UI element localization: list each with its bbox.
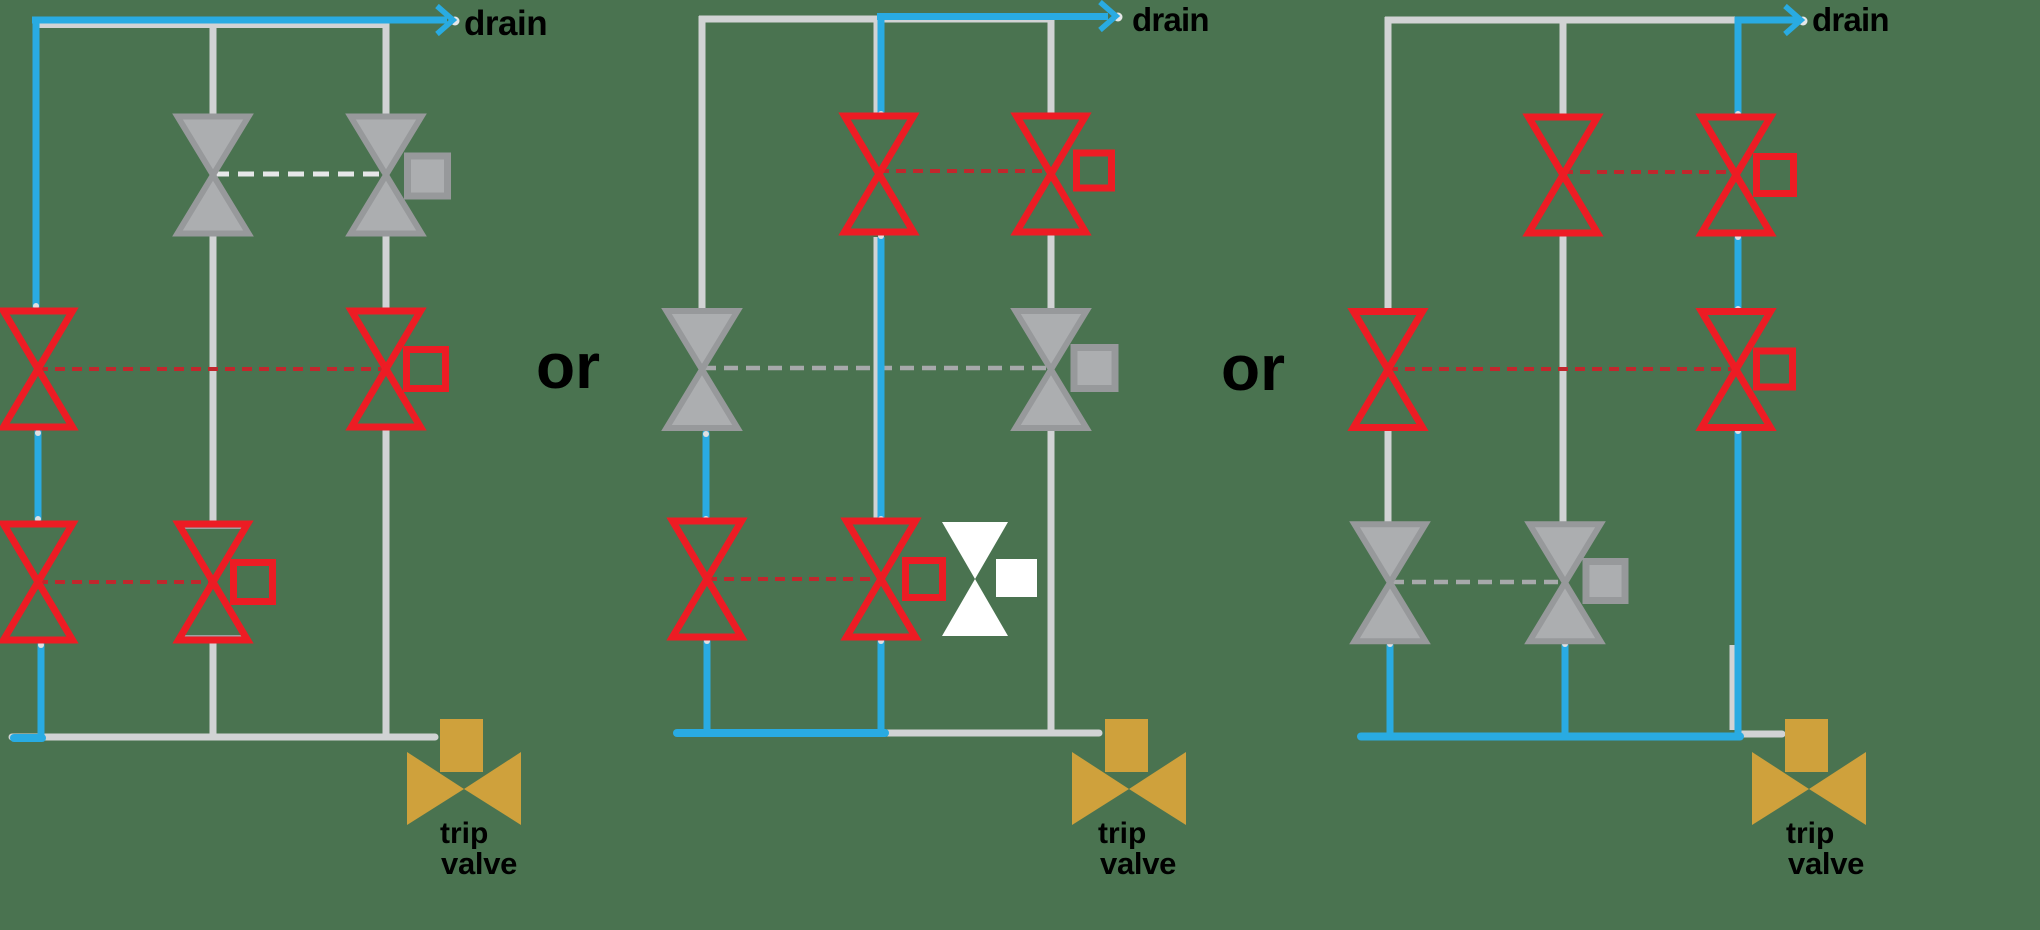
valve V1d red (D1 middle right) — [352, 311, 421, 427]
wire gray bottom header D2 — [884, 730, 1099, 737]
valve V3b red (D3 top right) — [1702, 117, 1771, 233]
wire blue bottom tail D1 — [14, 734, 42, 742]
actuator square red V1d — [407, 350, 446, 389]
wire gray middle riser top stub D1 — [210, 21, 217, 117]
svg-text:valve: valve — [1788, 846, 1864, 881]
valve V1f red (D1 bottom middle) — [179, 524, 248, 640]
wire gray middle riser mid D1 — [210, 236, 217, 524]
wire blue bottom run D2 — [677, 729, 885, 737]
wire gray top header D1 — [33, 21, 386, 28]
actuator square red V2f — [906, 561, 943, 598]
dashed link white D1 top row — [213, 172, 386, 177]
wire gray right riser mid D2 — [1048, 236, 1055, 309]
wire gray mid riser top stub D2 — [874, 19, 881, 115]
svg-text:drain: drain — [1132, 1, 1209, 38]
wire blue bottom run D3 — [1361, 733, 1740, 741]
actuator square red V1f — [234, 563, 273, 602]
svg-text:valve: valve — [441, 846, 517, 881]
svg-text:or: or — [1221, 332, 1285, 404]
valve V2a red (D2 top middle) — [845, 116, 914, 232]
wire blue right riser mid D3 — [1735, 237, 1742, 310]
wire blue drain line D3 — [1735, 17, 1798, 24]
wire gray right riser bottom D2 — [1048, 431, 1055, 733]
wire gray left riser top D3 — [1385, 17, 1392, 312]
dashed link gray D3 bottom row — [1390, 580, 1565, 585]
wire gray left riser top D2 — [699, 16, 706, 309]
wire blue drain line D2 — [877, 13, 1108, 20]
trip valve TV3 gold — [1785, 719, 1828, 772]
wire blue mid riser bottom D2 — [878, 640, 885, 737]
actuator square red V3b — [1757, 157, 1794, 194]
actuator square white V2g — [996, 559, 1037, 597]
wire gray right riser mid D1 — [383, 236, 390, 311]
valve V3c red (D3 middle left) — [1354, 312, 1423, 428]
actuator square gray V2d — [1074, 348, 1115, 389]
valve V2b red (D2 top right) — [1017, 116, 1086, 232]
wire gray middle riser bottom D1 — [210, 643, 217, 737]
wire blue left riser top D1 — [33, 17, 40, 309]
wire gray top header D2 — [699, 16, 1053, 23]
drain arrow D2 — [1114, 13, 1123, 22]
dashed link red D2 top row — [879, 169, 1051, 173]
wire gray mid riser mid D3 — [1560, 237, 1567, 524]
valve V3f gray (D3 bottom middle) — [1530, 524, 1601, 641]
actuator square gray V1b — [408, 156, 448, 196]
svg-text:or: or — [536, 330, 600, 402]
valve V2e red (D2 bottom left) — [673, 521, 742, 637]
wire gray right riser top stub D1 — [383, 21, 390, 117]
dashed link red D1 bottom row — [38, 580, 213, 584]
actuator square gray V3f — [1586, 562, 1625, 601]
actuator square red V2b — [1077, 153, 1112, 188]
wire blue left riser bottom D2 — [704, 640, 711, 735]
wire blue mid riser bottom D3 — [1562, 645, 1569, 736]
wire blue left riser bottom D1 — [38, 642, 45, 738]
dashed link red D3 top row — [1563, 170, 1736, 174]
wire blue left riser mid D1 — [35, 430, 42, 521]
dashed link red D1 middle row — [38, 367, 386, 371]
wire gray right riser underlay D3 — [1730, 645, 1737, 730]
svg-text:drain: drain — [1812, 1, 1889, 38]
valve V1e red (D1 bottom left) — [4, 524, 73, 640]
dashed link red D2 bottom row — [707, 577, 879, 581]
wire blue mid riser top D2 — [878, 13, 885, 117]
wire blue right riser bottom D3 — [1735, 430, 1742, 737]
dashed link red D3 middle row — [1388, 367, 1736, 371]
drain arrow D3 — [1799, 17, 1808, 26]
valve V2g white (D2 bottom bypass) — [942, 522, 1008, 636]
valve V2f red (D2 bottom middle) — [847, 521, 916, 637]
wire blue right riser top D3 — [1735, 17, 1742, 117]
valve V1a gray (D1 top middle) — [178, 117, 249, 234]
wire gray mid riser mid D2 — [874, 237, 881, 521]
valve V3d red (D3 middle right) — [1702, 312, 1771, 428]
trip valve TV2 gold — [1105, 719, 1148, 772]
wire gray bottom header D1 — [12, 734, 435, 741]
wire gray right riser bottom D1 — [383, 430, 390, 737]
wire gray bottom stub D3 — [1742, 731, 1782, 738]
valve V1b gray (D1 top right) — [351, 117, 422, 234]
svg-text:valve: valve — [1100, 846, 1176, 881]
valve V2d gray (D2 middle right) — [1016, 311, 1087, 428]
trip valve TV1 gold — [440, 719, 483, 772]
wire blue left riser mid D2 — [703, 433, 710, 521]
wire gray top header D3 — [1385, 17, 1736, 24]
valve V3e gray (D3 bottom left) — [1355, 524, 1426, 641]
wire blue left riser bottom D3 — [1387, 645, 1394, 736]
wire gray mid riser top stub D3 — [1560, 17, 1567, 117]
actuator square red V3d — [1757, 351, 1793, 387]
valve V2c gray (D2 middle left) — [667, 311, 738, 428]
wire blue mid riser mid D2 — [878, 237, 885, 521]
valve V3a red (D3 top middle) — [1529, 117, 1598, 233]
wire gray right riser top stub D2 — [1048, 16, 1055, 117]
valve V1c red (D1 middle left) — [4, 311, 73, 427]
dashed link gray D2 middle row — [702, 366, 1051, 371]
svg-text:drain: drain — [464, 4, 547, 43]
drain arrow D1 — [451, 17, 460, 26]
wire blue drain line D1 — [32, 17, 447, 24]
wire gray left riser mid D3 — [1385, 430, 1392, 524]
